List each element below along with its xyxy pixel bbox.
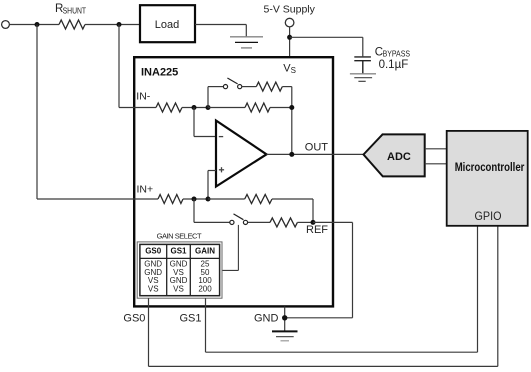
svg-text:GND: GND: [254, 312, 279, 324]
IC box INA225: [134, 57, 333, 306]
resistor (feedback, switched): [256, 82, 282, 91]
wire: plus input: [207, 171, 209, 200]
node: GND junction: [282, 315, 287, 320]
wire: IN+ line: [37, 198, 158, 200]
resistor (IN+ input): [158, 195, 183, 204]
svg-text:GAIN SELECT: GAIN SELECT: [157, 231, 202, 240]
svg-text:GS1: GS1: [170, 247, 187, 256]
resistor (REF switched): [270, 218, 297, 227]
node: IN+ to REF switch branch: [192, 197, 197, 202]
node: IN- to feedback: [206, 105, 211, 110]
resistor R_SHUNT: [59, 20, 85, 29]
wire: supply down into VS pin: [289, 27, 291, 58]
Load box: [140, 5, 195, 42]
svg-text:INA225: INA225: [141, 66, 178, 78]
node: IN- to minus input: [192, 105, 197, 110]
resistor (IN- input): [156, 103, 182, 112]
svg-text:SHUNT: SHUNT: [63, 6, 87, 15]
svg-text:IN-: IN-: [136, 91, 151, 103]
svg-text:GS1: GS1: [180, 312, 202, 324]
wire: IN- drop (x=119): [118, 25, 120, 108]
svg-text:ADC: ADC: [387, 151, 411, 163]
wire: second feedback resistor branch: [208, 107, 245, 109]
wire: GS1 pin to GPIO: [205, 298, 207, 352]
node: OUT-feedback junction: [289, 152, 294, 157]
wire: minus input: [193, 108, 195, 137]
ground (GND pin): [272, 330, 298, 332]
wire: switch to resistor: [242, 86, 256, 88]
svg-text:Load: Load: [155, 19, 179, 31]
wire: R_SHUNT to Load: [85, 24, 139, 26]
svg-text:5-V Supply: 5-V Supply: [264, 4, 316, 16]
wire: Load to ground: [195, 24, 246, 26]
svg-text:200: 200: [198, 285, 212, 294]
switch (gain, top): [223, 85, 227, 89]
wire: lower switch branch: [193, 199, 195, 222]
node: junction to IN- drop: [117, 22, 122, 27]
5-V supply terminal circle: [285, 18, 294, 27]
wire: feedback branch riser: [207, 87, 209, 108]
resistor (feedback 2): [245, 103, 270, 112]
bus: ADC to microcontroller: [425, 148, 447, 150]
svg-text:BYPASS: BYPASS: [383, 50, 410, 59]
wire: GND pin: [284, 306, 286, 331]
switch (gain, bottom): [230, 220, 234, 224]
wire: IN+ drop (x=37): [36, 25, 38, 200]
wire: GS0 pin to GPIO: [148, 298, 150, 366]
input terminal (left open circle): [2, 21, 10, 29]
svg-text:S: S: [291, 66, 296, 75]
svg-text:Microcontroller: Microcontroller: [455, 160, 525, 174]
switch control link to gain-select table: [237, 225, 239, 271]
node: junction to IN+ drop: [35, 22, 40, 27]
svg-text:GAIN: GAIN: [195, 247, 215, 256]
ADC block: [364, 134, 425, 176]
svg-text:OUT: OUT: [305, 141, 329, 153]
gain select table: [137, 242, 222, 298]
resistor (REF branch): [245, 195, 272, 204]
node: feedback join: [289, 105, 294, 110]
svg-text:GPIO: GPIO: [475, 209, 502, 223]
node: REF join: [311, 220, 316, 225]
wire: REF resistor branch: [208, 198, 245, 200]
wire: OUT: [267, 153, 364, 155]
svg-text:GS0: GS0: [145, 247, 162, 256]
ground (C_BYPASS): [350, 73, 376, 75]
wire: REF out to GND net: [313, 221, 353, 223]
microcontroller block: [447, 131, 528, 226]
svg-text:GS0: GS0: [123, 312, 145, 324]
capacitor C_BYPASS: [354, 56, 371, 58]
node: IN+ to plus input: [206, 197, 211, 202]
wire: feedback right side down to OUT: [282, 86, 292, 88]
svg-text:VS: VS: [148, 285, 159, 294]
wire: terminal to R_SHUNT: [9, 24, 59, 26]
svg-text:REF: REF: [306, 224, 328, 236]
wire: IN- line: [119, 107, 156, 109]
ground (Load): [230, 36, 263, 38]
op-amp U1: [216, 121, 267, 187]
svg-text:0.1µF: 0.1µF: [379, 59, 409, 71]
svg-text:IN+: IN+: [137, 183, 154, 195]
wire: supply to C_BYPASS: [290, 36, 363, 38]
node: supply junction: [287, 35, 292, 40]
svg-text:VS: VS: [173, 285, 184, 294]
